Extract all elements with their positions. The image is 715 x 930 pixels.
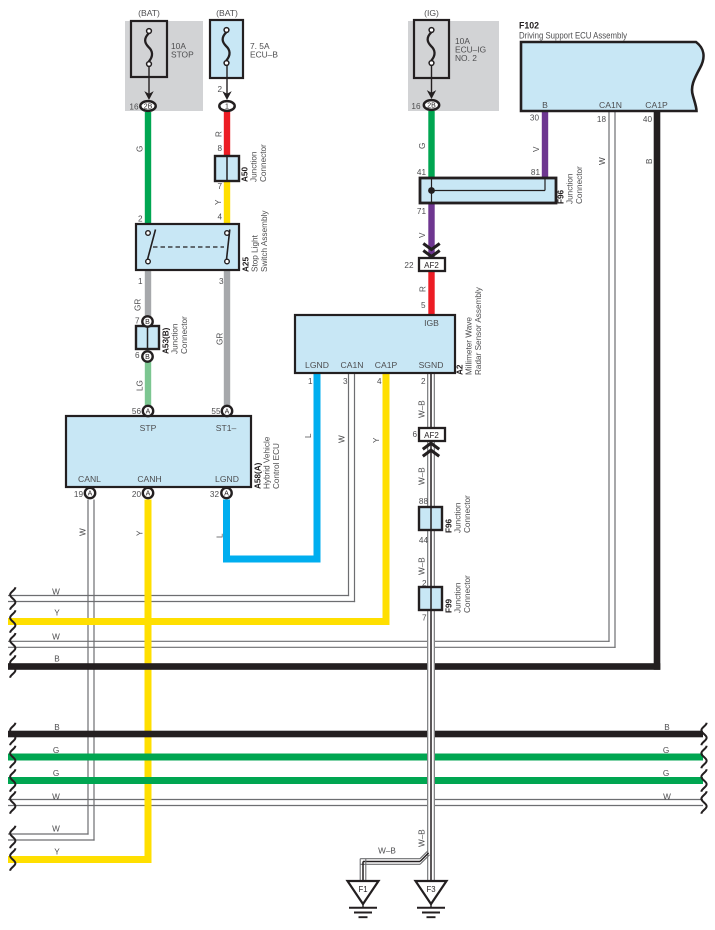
svg-text:LGND: LGND (215, 474, 239, 484)
svg-text:G: G (663, 769, 669, 778)
svg-text:ECU–B: ECU–B (250, 50, 278, 60)
svg-text:CA1N: CA1N (341, 360, 364, 370)
svg-text:R: R (419, 286, 428, 292)
svg-text:SGND: SGND (419, 360, 444, 370)
svg-text:Y: Y (372, 437, 381, 443)
svg-text:L: L (216, 533, 225, 538)
svg-text:22: 22 (404, 261, 414, 270)
svg-text:30: 30 (530, 114, 540, 123)
svg-text:2B: 2B (427, 103, 436, 110)
svg-text:V: V (418, 232, 427, 238)
svg-text:32: 32 (210, 490, 220, 499)
svg-text:W–B: W–B (418, 557, 427, 575)
svg-text:44: 44 (419, 536, 429, 545)
svg-text:Connector: Connector (180, 316, 189, 354)
svg-text:Control ECU: Control ECU (272, 443, 281, 489)
svg-text:A50: A50 (240, 167, 249, 182)
svg-text:Connector: Connector (463, 575, 472, 613)
svg-text:AF2: AF2 (424, 261, 439, 270)
svg-text:3: 3 (343, 377, 348, 386)
svg-text:W–B: W–B (418, 467, 427, 485)
svg-text:Y: Y (214, 199, 223, 205)
svg-text:LG: LG (136, 380, 145, 391)
svg-text:1: 1 (308, 377, 313, 386)
svg-text:B: B (145, 319, 150, 326)
svg-text:(BAT): (BAT) (216, 8, 238, 18)
svg-text:AF2: AF2 (424, 431, 439, 440)
svg-text:B: B (54, 655, 60, 664)
svg-text:CANH: CANH (137, 474, 161, 484)
svg-text:7: 7 (135, 317, 140, 326)
svg-text:GR: GR (134, 299, 143, 311)
svg-text:2: 2 (138, 215, 143, 224)
svg-text:81: 81 (531, 168, 541, 177)
svg-text:B: B (54, 723, 60, 732)
svg-text:Junction: Junction (566, 173, 575, 204)
svg-text:Junction: Junction (250, 151, 259, 182)
svg-text:G: G (53, 769, 59, 778)
svg-text:F96: F96 (556, 189, 565, 204)
svg-text:Hybrid Vehicle: Hybrid Vehicle (263, 436, 272, 489)
svg-text:20: 20 (132, 490, 142, 499)
svg-text:F1: F1 (358, 885, 367, 894)
svg-text:B: B (542, 100, 548, 110)
svg-text:W–B: W–B (418, 829, 427, 847)
svg-text:Junction: Junction (171, 323, 180, 354)
svg-text:R: R (215, 131, 224, 137)
svg-text:Y: Y (54, 609, 60, 618)
svg-text:ST1–: ST1– (216, 423, 237, 433)
svg-text:16: 16 (411, 102, 421, 111)
svg-text:V: V (532, 146, 541, 152)
svg-text:L: L (304, 433, 313, 438)
svg-text:W: W (598, 157, 607, 165)
svg-text:Millimeter Wave: Millimeter Wave (465, 317, 474, 375)
svg-text:1: 1 (225, 104, 229, 111)
svg-text:16: 16 (129, 103, 139, 112)
svg-text:3: 3 (219, 277, 224, 286)
svg-text:A: A (146, 409, 151, 416)
svg-text:B: B (645, 158, 654, 164)
svg-text:55: 55 (211, 407, 221, 416)
svg-text:W: W (52, 793, 60, 802)
svg-text:F102: F102 (519, 21, 539, 31)
svg-text:CA1N: CA1N (599, 100, 622, 110)
svg-text:71: 71 (417, 207, 427, 216)
svg-text:CA1P: CA1P (375, 360, 398, 370)
svg-text:Radar Sensor Assembly: Radar Sensor Assembly (474, 286, 483, 375)
svg-text:CANL: CANL (78, 474, 101, 484)
svg-text:8: 8 (217, 144, 222, 153)
svg-text:18: 18 (597, 115, 607, 124)
svg-text:A58(A): A58(A) (253, 462, 262, 489)
svg-text:Junction: Junction (454, 502, 463, 533)
svg-text:19: 19 (74, 490, 84, 499)
svg-text:88: 88 (419, 497, 429, 506)
svg-text:W: W (79, 528, 88, 536)
svg-text:CA1P: CA1P (645, 100, 668, 110)
svg-text:G: G (418, 143, 427, 149)
svg-text:W: W (52, 633, 60, 642)
svg-text:G: G (53, 746, 59, 755)
svg-text:G: G (136, 146, 145, 152)
svg-text:4: 4 (217, 213, 222, 222)
svg-text:Connector: Connector (575, 166, 584, 204)
svg-text:5: 5 (421, 301, 426, 310)
svg-text:Junction: Junction (454, 582, 463, 613)
svg-text:A: A (146, 491, 151, 498)
svg-text:F99: F99 (444, 598, 453, 613)
svg-text:2: 2 (422, 579, 427, 588)
svg-text:W: W (663, 793, 671, 802)
svg-text:40: 40 (643, 115, 653, 124)
svg-text:Switch Assembly: Switch Assembly (260, 210, 269, 272)
svg-text:F96: F96 (444, 518, 453, 533)
svg-text:NO. 2: NO. 2 (455, 53, 477, 63)
svg-text:IGB: IGB (424, 318, 439, 328)
svg-text:7: 7 (422, 614, 427, 623)
svg-text:4: 4 (377, 377, 382, 386)
svg-text:F3: F3 (426, 885, 435, 894)
svg-text:B: B (145, 354, 150, 361)
svg-text:LGND: LGND (305, 360, 329, 370)
svg-text:A53(B): A53(B) (161, 327, 170, 354)
svg-text:A: A (88, 491, 93, 498)
svg-text:2B: 2B (144, 104, 153, 111)
svg-text:GR: GR (216, 333, 225, 345)
svg-text:1: 1 (138, 277, 143, 286)
svg-text:6: 6 (412, 430, 417, 439)
svg-text:56: 56 (132, 407, 142, 416)
svg-text:A2: A2 (455, 364, 464, 375)
svg-text:2: 2 (217, 85, 222, 94)
svg-text:A25: A25 (241, 257, 250, 272)
svg-text:W–B: W–B (378, 847, 396, 856)
svg-text:41: 41 (417, 168, 427, 177)
svg-text:W: W (52, 825, 60, 834)
svg-text:STP: STP (140, 423, 157, 433)
svg-text:Y: Y (136, 530, 145, 536)
svg-text:B: B (664, 723, 670, 732)
svg-text:(IG): (IG) (424, 8, 439, 18)
svg-text:W–B: W–B (418, 400, 427, 418)
svg-text:A: A (224, 491, 229, 498)
svg-text:6: 6 (135, 351, 140, 360)
svg-text:W: W (338, 435, 347, 443)
svg-text:Y: Y (54, 848, 60, 857)
svg-text:STOP: STOP (171, 50, 194, 60)
svg-text:W: W (52, 588, 60, 597)
svg-text:Connector: Connector (259, 144, 268, 182)
svg-text:A: A (225, 409, 230, 416)
svg-text:Stop Light: Stop Light (251, 234, 260, 272)
svg-text:(BAT): (BAT) (138, 8, 160, 18)
svg-text:Driving Support ECU Assembly: Driving Support ECU Assembly (519, 31, 628, 41)
svg-text:G: G (663, 746, 669, 755)
svg-text:2: 2 (421, 377, 426, 386)
svg-text:7: 7 (217, 182, 222, 191)
svg-text:Connector: Connector (463, 495, 472, 533)
